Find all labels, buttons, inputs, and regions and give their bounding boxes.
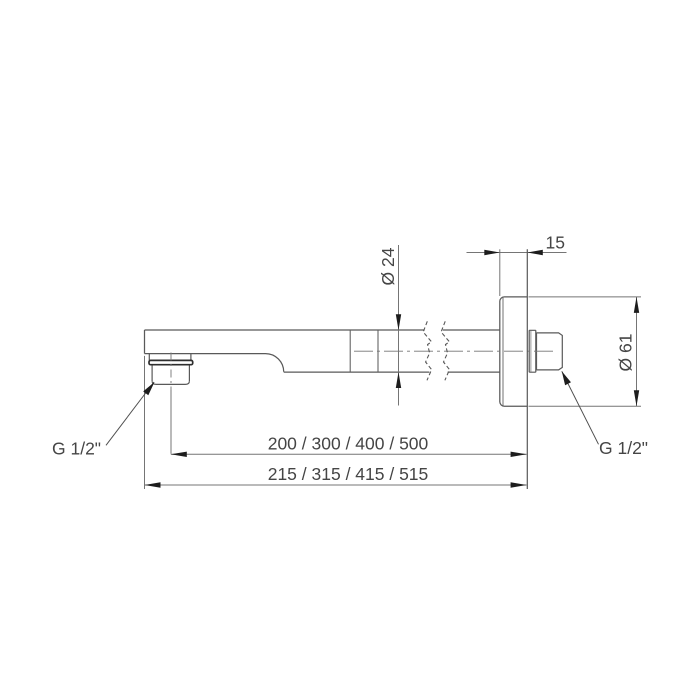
svg-text:Ø 24: Ø 24 xyxy=(378,247,398,285)
svg-text:215 / 315 / 415 / 515: 215 / 315 / 415 / 515 xyxy=(268,464,429,484)
svg-text:G 1/2": G 1/2" xyxy=(599,438,648,458)
svg-text:15: 15 xyxy=(546,233,565,253)
svg-text:200 / 300 / 400 / 500: 200 / 300 / 400 / 500 xyxy=(268,434,429,454)
svg-text:G 1/2": G 1/2" xyxy=(52,439,101,459)
svg-text:Ø 61: Ø 61 xyxy=(616,334,636,372)
